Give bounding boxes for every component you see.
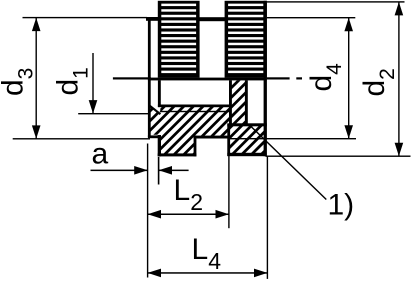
block bottom edge [227, 153, 266, 156]
sectioned wall column right edge [245, 80, 248, 123]
dimension d4: bottom extension line [229, 138, 357, 139]
dimension d2: arrowhead up [395, 2, 404, 15]
knurl band 1 (left knurled zone, body) [158, 1, 200, 78]
dimension L4: arrowhead right [254, 269, 267, 278]
dimension d4: arrowhead up [344, 18, 353, 31]
left end face edge [148, 17, 151, 137]
dimension L2: dimension line [148, 214, 229, 216]
section hatching: lower right block [81, 0, 414, 170]
bore left inner wall line [158, 80, 161, 107]
dimension d4: dimension line [348, 18, 349, 139]
bore surface thick line (internal thread minor) [158, 105, 230, 108]
dimension d3: arrowhead down [32, 125, 41, 138]
dimension d1: dimension line [92, 53, 93, 113]
dimension a: right tail and arrow [159, 170, 189, 172]
dimension L2: right extension line [228, 127, 229, 228]
dimension d3: dimension line [36, 18, 37, 139]
dimension L2: arrowhead right [216, 210, 229, 219]
dimension d4: arrowhead down [344, 125, 353, 138]
leader line for note 1) [251, 127, 326, 200]
mid bar at centerline (section boundary) [148, 78, 267, 81]
centerline left stub [113, 77, 151, 79]
right end face edge [264, 1, 267, 156]
thread run-out chamfer diagonal [149, 105, 160, 114]
dimension d3: arrowhead up [32, 18, 41, 31]
dimension d3: top extension line [23, 17, 148, 18]
dimension L4: arrowhead left [148, 269, 161, 278]
dimension d2: bottom extension line [266, 156, 411, 157]
svg-text:1): 1) [328, 189, 355, 222]
section hatching: wall column [81, 0, 414, 170]
dimension d2: arrowhead down [395, 143, 404, 156]
tab left edge [158, 135, 161, 156]
dimension a: left extension line [147, 144, 148, 278]
dimension d2: top extension line [267, 1, 405, 2]
block left edge [227, 124, 230, 156]
dimension d1: arrowhead down [89, 100, 98, 113]
sectioned wall column left edge [229, 80, 232, 126]
groove bottom surface line [194, 136, 230, 139]
dimension d3: bottom extension line [13, 138, 150, 139]
section hatching: flange area [81, 0, 414, 170]
dimension L2: arrowhead left [148, 210, 161, 219]
centerline right segment [267, 77, 290, 79]
tab right edge [194, 136, 197, 157]
dimension d4: top extension line [267, 17, 355, 18]
dimension a: left tail and arrow [91, 170, 148, 172]
dimension d1: extension line [78, 113, 150, 114]
dimension L4: right extension line [267, 157, 268, 279]
svg-text:a: a [92, 138, 109, 171]
lead-in top surface line (d3 diameter) [146, 17, 160, 21]
tab bottom edge [158, 153, 197, 156]
counterbore surface line (block top) [227, 123, 266, 126]
flange bottom-left edge [148, 135, 160, 138]
dimension a: right extension line [158, 157, 160, 185]
groove surface line between knurl bands (d4 diameter) [199, 17, 226, 21]
knurl band 2 (right knurled zone, body) [225, 1, 267, 78]
dimension d2: dimension line [398, 2, 399, 156]
internal thread major thin line (d1) [160, 111, 230, 112]
centerline right dash [296, 77, 302, 79]
dimension L4: dimension line [148, 272, 268, 274]
